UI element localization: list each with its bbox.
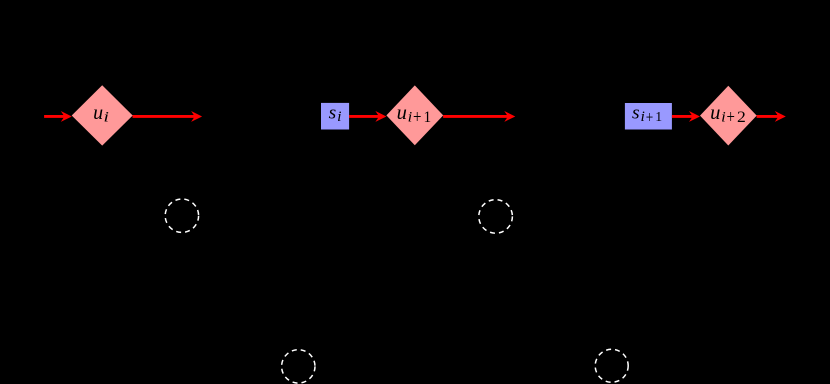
node s_i (square) xyxy=(321,103,349,130)
svg-text:u: u xyxy=(397,102,407,124)
node u_i (diamond) xyxy=(72,85,133,145)
svg-text:+: + xyxy=(646,107,654,126)
wire: arrow from u_i+1 to the right xyxy=(443,111,515,122)
wire: arrow from u_i to the right xyxy=(133,111,203,122)
svg-text:s: s xyxy=(632,102,640,123)
wire: input arrow into u_i xyxy=(44,111,72,122)
svg-text:1: 1 xyxy=(655,110,662,125)
svg-text:i: i xyxy=(641,109,645,125)
node: dashed circle 1 (upper left) xyxy=(165,199,198,232)
node u_i+1 (diamond) xyxy=(386,85,443,145)
svg-text:s: s xyxy=(329,103,337,124)
svg-text:2: 2 xyxy=(737,109,746,126)
svg-text:i: i xyxy=(721,110,726,126)
svg-text:i: i xyxy=(337,109,341,125)
node: dashed circle 4 (lower right, clipped) xyxy=(595,349,628,382)
svg-text:+: + xyxy=(413,107,421,128)
wire: arrow from s_i to u_i+1 xyxy=(349,111,386,122)
node: dashed circle 3 (lower left, clipped) xyxy=(282,350,315,383)
svg-text:i: i xyxy=(104,110,109,126)
svg-text:i: i xyxy=(408,110,413,126)
node s_i+1 (rectangle) xyxy=(625,102,672,129)
svg-text:u: u xyxy=(710,102,720,124)
wire: arrow from s_i+1 to u_i+2 xyxy=(672,111,700,122)
wire: output arrow from u_i+2 xyxy=(757,111,786,122)
svg-text:u: u xyxy=(93,102,103,124)
svg-text:+: + xyxy=(727,107,735,128)
node u_i+2 (diamond) xyxy=(700,86,757,146)
svg-text:1: 1 xyxy=(424,109,432,126)
node: dashed circle 2 (upper right) xyxy=(479,200,513,234)
